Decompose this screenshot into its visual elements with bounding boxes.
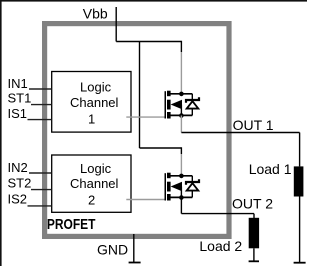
svg-text:1: 1 (88, 112, 95, 127)
wire gate1 lead (126, 116, 165, 118)
svg-text:IS2: IS2 (8, 192, 28, 207)
svg-text:PROFET: PROFET (47, 217, 96, 233)
svg-text:ST2: ST2 (8, 175, 32, 190)
wire OUT1 down to Load 1 (299, 133, 301, 167)
wire drain1 feed black part (180, 41, 182, 52)
transistor Q2 (power MOSFET channel 2) (165, 173, 193, 201)
D1 anode triangle (187, 101, 199, 108)
Q1 channel bar middle segment (167, 100, 171, 110)
svg-text:Logic: Logic (80, 161, 112, 176)
logic block channel 2 (52, 155, 131, 212)
ground bar under GND (129, 262, 141, 264)
Q2 channel bar bottom segment (167, 194, 171, 201)
D2 anode lead (191, 191, 193, 197)
svg-text:IN2: IN2 (8, 160, 28, 175)
wire IS2 (28, 205, 52, 207)
wire OUT2 down to Load 2 (253, 214, 255, 218)
wire IN2 (29, 172, 52, 174)
wire IN1 (29, 88, 52, 90)
svg-text:IS1: IS1 (8, 106, 28, 121)
transistor Q1 (power MOSFET channel 1) (165, 91, 193, 119)
wire Load 1 to ground (299, 197, 301, 263)
logic block channel 1 (52, 72, 131, 133)
Q2 source line (171, 196, 193, 198)
wire drain1 feed gray part (180, 52, 182, 93)
Q2 gate plate (165, 173, 167, 200)
D2 cathode bar with zener ticks (186, 179, 199, 185)
Q1 channel bar top segment (167, 91, 171, 97)
wire Load 2 to ground (253, 248, 255, 261)
Q2 source junction dot (179, 195, 184, 200)
frame top edge (0, 0, 307, 2)
svg-text:Logic: Logic (80, 80, 112, 95)
svg-text:OUT 1: OUT 1 (233, 117, 274, 133)
Q2 drain line (171, 175, 193, 177)
wire source2 to OUT2 corner (180, 198, 182, 214)
Q2 channel bar top segment (167, 173, 171, 179)
svg-text:2: 2 (88, 193, 95, 208)
wire ST1 (31, 104, 52, 106)
Q1 body arrow (171, 100, 182, 110)
D1 anode lead (191, 109, 193, 115)
PROFET device outline U1 (45, 24, 229, 237)
Q2 drain junction dot (179, 174, 184, 179)
Q2 channel bar middle segment (167, 182, 171, 192)
Q1 drain junction dot (179, 92, 184, 97)
svg-text:Load 1: Load 1 (249, 161, 292, 177)
svg-text:OUT 2: OUT 2 (232, 196, 273, 212)
wire Vbb rail (116, 41, 181, 43)
wire IS1 (28, 119, 52, 121)
svg-text:Channel: Channel (70, 176, 119, 191)
D2 anode triangle (187, 183, 199, 190)
svg-text:GND: GND (97, 242, 128, 258)
ground bar under Load 1 (294, 262, 306, 264)
D1 cathode bar with zener ticks (186, 97, 199, 103)
frame left edge (0, 0, 2, 266)
wire gate2 lead (126, 199, 165, 201)
load resistor Load 2 body (249, 218, 259, 249)
svg-text:Load 2: Load 2 (199, 238, 242, 254)
wire OUT1 horizontal (181, 132, 299, 134)
wire GND lead (133, 234, 135, 263)
svg-text:ST1: ST1 (8, 91, 32, 106)
zener diode D2 (186, 176, 199, 198)
Q1 gate plate (165, 91, 167, 118)
wire channel2 supply horizontal (140, 147, 182, 149)
wire OUT2 horizontal (181, 213, 254, 215)
svg-text:Channel: Channel (70, 95, 119, 110)
D2 cathode lead (191, 176, 193, 181)
wire ST2 (31, 189, 52, 191)
D1 cathode lead (191, 94, 193, 99)
load resistor Load 1 body (294, 166, 304, 196)
svg-text:Vbb: Vbb (83, 5, 108, 21)
wire Vbb lead (115, 7, 117, 42)
zener diode D1 (186, 94, 199, 116)
wire drain2 feed black part (180, 147, 182, 154)
Q1 channel bar bottom segment (167, 112, 171, 119)
Q2 body arrow (171, 182, 182, 192)
svg-text:IN1: IN1 (8, 76, 28, 91)
wire source1 to OUT1 corner (gray) (180, 116, 182, 133)
Q1 drain line (171, 93, 193, 95)
ground bar under Load 2 (249, 260, 259, 262)
Q1 body-source connection (180, 105, 182, 116)
wire drain2 feed gray part (180, 154, 182, 175)
Q2 body-source connection (180, 187, 182, 198)
Q1 source line (171, 114, 193, 116)
Q1 source junction dot (179, 113, 184, 118)
wire channel2 supply vertical (139, 42, 141, 149)
